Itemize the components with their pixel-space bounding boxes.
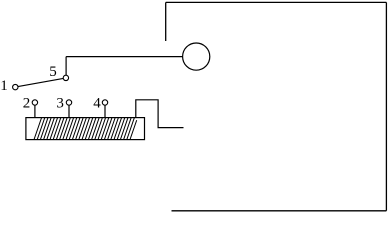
node 5 (63, 75, 68, 80)
wire rheostat-output step (136, 100, 184, 128)
lamp L1 (183, 43, 210, 70)
wire frame-left-stub (165, 2, 167, 41)
node 3 (66, 100, 71, 105)
wire node2-stub (34, 105, 36, 117)
wire node5 vertical (65, 57, 67, 76)
svg-text:2: 2 (23, 96, 31, 112)
node 1 (13, 84, 18, 89)
wire frame-top (166, 1, 387, 3)
wire node4-stub (104, 105, 106, 117)
wire node3-stub (68, 105, 70, 117)
node 4 (102, 100, 107, 105)
svg-text:3: 3 (56, 96, 64, 112)
resistor R1 body (26, 118, 145, 140)
svg-text:5: 5 (49, 64, 57, 80)
wire frame-right (385, 2, 387, 210)
svg-text:1: 1 (0, 78, 8, 94)
resistor R1 winding hatch (34, 118, 137, 140)
svg-text:4: 4 (93, 96, 101, 112)
node 2 (32, 100, 37, 105)
wire node5-to-lamp horizontal (66, 56, 183, 58)
switch S1 blade (18, 78, 63, 86)
wire frame-bottom (172, 210, 387, 212)
